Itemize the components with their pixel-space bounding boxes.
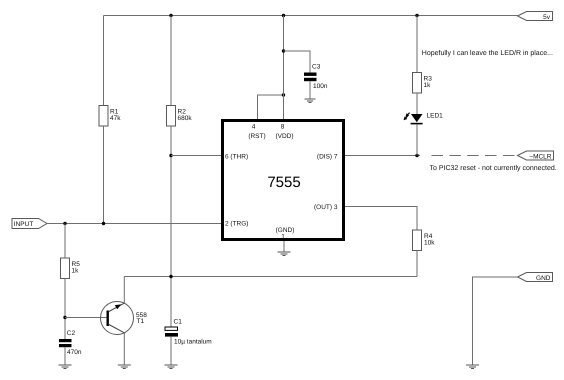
svg-text:(GND): (GND) bbox=[276, 227, 295, 234]
node INPUT/R5 junction bbox=[63, 222, 66, 225]
svg-text:1k: 1k bbox=[72, 267, 80, 274]
svg-text:C2: C2 bbox=[67, 330, 76, 337]
wire R2 bottom to C1 bbox=[170, 126, 172, 327]
svg-text:C3: C3 bbox=[312, 64, 321, 71]
wire RST pin 4 stub bbox=[258, 95, 284, 119]
wire dashed to ~MCLR bbox=[432, 155, 518, 157]
wire R3 to LED bbox=[416, 93, 418, 114]
wire VDD pin 8 stub bbox=[283, 16, 285, 120]
svg-text:Hopefully I can leave the LED/: Hopefully I can leave the LED/R in place… bbox=[422, 49, 553, 57]
wire R2 top stub bbox=[170, 16, 172, 106]
ground under GND branch bbox=[466, 365, 479, 369]
wire C1 to ground bbox=[170, 337, 172, 365]
wire C3 to ground bbox=[309, 81, 311, 99]
ground under C2 bbox=[59, 365, 72, 369]
wire GND branch bbox=[473, 277, 518, 365]
wire OUT pin 3 bbox=[345, 207, 417, 231]
svg-text:6 (THR): 6 (THR) bbox=[225, 153, 248, 160]
svg-text:5v: 5v bbox=[543, 14, 551, 21]
svg-text:1k: 1k bbox=[424, 82, 432, 89]
svg-text:100n: 100n bbox=[313, 83, 328, 90]
node DIS/LED junction bbox=[415, 154, 418, 157]
wire INPUT to TRG pin 2 bbox=[47, 223, 221, 225]
node INPUT/R1 junction bbox=[102, 222, 105, 225]
ground under C1 bbox=[165, 365, 178, 369]
svg-text:INPUT: INPUT bbox=[14, 221, 34, 228]
transistor Q1 (T1 558) bbox=[101, 302, 148, 335]
wire emitter up bbox=[123, 277, 125, 304]
node RST/VDD junction bbox=[282, 93, 285, 96]
node rail/VDD junction bbox=[282, 14, 285, 17]
capacitor C3 bbox=[304, 64, 328, 90]
svg-text:10k: 10k bbox=[424, 239, 435, 246]
svg-text:7555: 7555 bbox=[267, 174, 300, 191]
connector ~MCLR bbox=[518, 151, 554, 160]
svg-text:8: 8 bbox=[281, 124, 285, 131]
op-amp/timer U1 7555 bbox=[223, 121, 344, 241]
wire GND pin 1 stub bbox=[283, 241, 285, 252]
svg-text:C1: C1 bbox=[174, 318, 183, 325]
node THR junction bbox=[169, 154, 172, 157]
connector GND bbox=[518, 273, 553, 283]
wire 5V rail bbox=[104, 15, 518, 17]
svg-text:680k: 680k bbox=[178, 115, 193, 122]
resistor R3 bbox=[413, 73, 433, 94]
wire R3 top stub bbox=[416, 16, 418, 73]
svg-text:GND: GND bbox=[536, 275, 551, 282]
wire THR pin 6 bbox=[171, 155, 221, 157]
wire R5 top stub bbox=[64, 224, 66, 259]
node rail/R3 junction bbox=[415, 14, 418, 17]
svg-text:(VDD): (VDD) bbox=[275, 133, 293, 140]
wire LED to DIS bbox=[416, 124, 418, 155]
svg-text:To PIC32 reset - not currently: To PIC32 reset - not currently connected… bbox=[430, 164, 557, 172]
capacitor C2 bbox=[59, 330, 82, 356]
svg-text:2 (TRG): 2 (TRG) bbox=[225, 221, 248, 228]
capacitor C1 bbox=[165, 318, 212, 345]
wire base of T1 bbox=[65, 317, 107, 319]
LED LED1 bbox=[404, 113, 444, 125]
svg-text:~MCLR: ~MCLR bbox=[529, 153, 552, 160]
wire R5 bottom to C2 bbox=[64, 279, 66, 340]
wire R1 top stub bbox=[103, 16, 105, 106]
connector INPUT bbox=[12, 219, 47, 229]
svg-text:10µ tantalum: 10µ tantalum bbox=[174, 338, 212, 345]
svg-text:(DIS) 7: (DIS) 7 bbox=[317, 153, 338, 160]
svg-text:4: 4 bbox=[252, 124, 256, 131]
resistor R1 bbox=[99, 106, 121, 127]
node base junction bbox=[63, 316, 66, 319]
wire R1 bottom bbox=[103, 126, 105, 224]
svg-text:(RST): (RST) bbox=[248, 133, 265, 140]
svg-text:470n: 470n bbox=[67, 349, 82, 356]
wire R4 bottom bbox=[416, 251, 418, 277]
svg-text:47k: 47k bbox=[110, 115, 121, 122]
resistor R4 bbox=[413, 230, 436, 251]
resistor R5 bbox=[61, 258, 81, 279]
svg-text:LED1: LED1 bbox=[427, 113, 444, 120]
wire C2 to ground bbox=[64, 347, 66, 365]
node C1/R2 junction on run bbox=[169, 275, 172, 278]
svg-text:1: 1 bbox=[281, 234, 285, 241]
wire collector down bbox=[123, 333, 125, 365]
svg-text:(OUT) 3: (OUT) 3 bbox=[314, 204, 338, 211]
ground under T1 bbox=[118, 365, 131, 369]
resistor R2 bbox=[167, 106, 193, 127]
wire emitter run to R4 bbox=[124, 276, 417, 278]
wire C3 branch bbox=[284, 51, 311, 73]
ground under IC pin 1 bbox=[278, 252, 291, 256]
node C3 tap junction bbox=[282, 49, 285, 52]
svg-text:T1: T1 bbox=[137, 318, 145, 325]
node rail/R2 junction bbox=[169, 14, 172, 17]
connector 5v bbox=[518, 12, 553, 22]
wire DIS pin 7 bbox=[345, 155, 420, 157]
ground under C3 bbox=[305, 99, 316, 103]
